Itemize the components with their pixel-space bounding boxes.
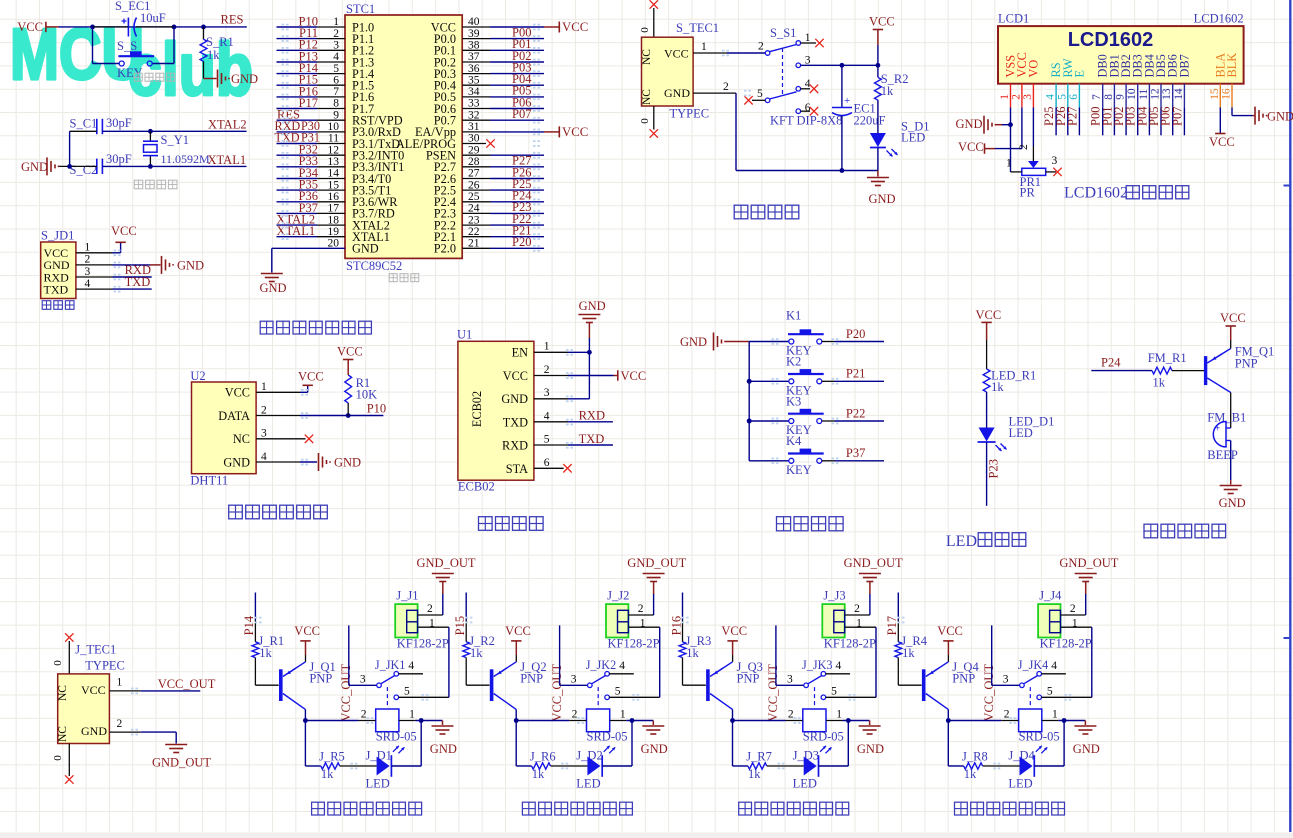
svg-text:SRD-05: SRD-05	[1019, 730, 1060, 744]
junction	[876, 63, 881, 68]
svg-text:2: 2	[854, 603, 860, 615]
label relay circuit title 4	[955, 802, 968, 815]
svg-text:P07: P07	[512, 107, 531, 121]
svg-text:4: 4	[836, 660, 842, 672]
svg-text:6: 6	[1068, 94, 1080, 100]
wire collector	[304, 709, 306, 720]
svg-text:TXD: TXD	[44, 282, 69, 296]
svg-text:1k: 1k	[207, 48, 220, 62]
svg-text:4: 4	[1051, 660, 1057, 672]
wire jj pin1 rail	[845, 626, 876, 628]
junction	[747, 419, 752, 424]
svg-text:4: 4	[408, 660, 414, 672]
wire led branch left	[947, 721, 949, 767]
pin4 wire to GND	[256, 461, 300, 463]
svg-text:GND: GND	[1219, 496, 1246, 510]
wire XTAL1 net	[59, 165, 97, 167]
wire net P22	[822, 420, 835, 422]
wire jj pin2 to gnd_out	[1061, 614, 1086, 616]
svg-text:GND: GND	[231, 72, 258, 86]
svg-text:LED: LED	[793, 776, 817, 790]
svg-text:VCC: VCC	[1209, 135, 1235, 149]
wire led branch right	[391, 765, 421, 767]
label bluetooth title	[479, 517, 493, 531]
svg-text:VCC_OUT: VCC_OUT	[339, 664, 353, 722]
svg-text:VO: VO	[1026, 60, 1040, 78]
wire led branch right	[602, 765, 632, 767]
svg-text:GND: GND	[956, 117, 983, 131]
wire coil pin2	[733, 720, 786, 722]
svg-text:1: 1	[805, 32, 811, 44]
svg-text:3: 3	[360, 674, 366, 686]
svg-text:1k: 1k	[991, 380, 1004, 394]
svg-text:K1: K1	[786, 309, 801, 323]
svg-text:LCD1: LCD1	[998, 12, 1029, 26]
junction	[514, 718, 519, 723]
svg-text:12: 12	[1150, 88, 1162, 100]
label crystal caption	[134, 180, 143, 189]
svg-text:GND: GND	[869, 192, 896, 206]
svg-text:VCC: VCC	[958, 140, 984, 154]
pin 20 GND wire	[272, 247, 345, 249]
svg-text:0: 0	[52, 755, 64, 761]
junction	[148, 129, 153, 134]
no-connect X (jtec top)	[65, 633, 73, 641]
svg-text:5: 5	[404, 686, 410, 698]
junction	[201, 25, 206, 30]
svg-text:J_J1: J_J1	[396, 589, 418, 603]
junction	[1062, 718, 1067, 723]
svg-text:VCC: VCC	[721, 624, 747, 638]
wire keys gnd rail	[748, 342, 750, 461]
svg-text:P22: P22	[846, 406, 865, 420]
svg-text:VCC: VCC	[298, 370, 324, 384]
svg-text:10uF: 10uF	[140, 11, 166, 25]
wire coil pin1	[610, 720, 627, 722]
svg-text:2: 2	[544, 364, 550, 376]
svg-text:P20: P20	[846, 327, 865, 341]
svg-text:2: 2	[117, 718, 123, 730]
svg-text:DHT11: DHT11	[190, 474, 228, 488]
wire GND return	[693, 92, 736, 94]
svg-text:STC89C52: STC89C52	[346, 259, 402, 273]
svg-text:1: 1	[1006, 158, 1012, 170]
svg-text:S_Y1: S_Y1	[161, 133, 189, 147]
svg-text:1: 1	[836, 709, 842, 721]
svg-text:J_JK2: J_JK2	[586, 658, 616, 672]
svg-text:1k: 1k	[470, 646, 483, 660]
svg-text:11: 11	[1138, 89, 1150, 100]
svg-text:STC1: STC1	[346, 2, 375, 16]
svg-text:VCC: VCC	[664, 46, 689, 60]
svg-text:J_R6: J_R6	[530, 749, 556, 763]
svg-text:0: 0	[52, 660, 64, 666]
svg-text:2: 2	[1010, 94, 1022, 100]
svg-text:GND: GND	[177, 259, 204, 273]
svg-text:14: 14	[1173, 88, 1185, 100]
ground (dht11)	[318, 453, 320, 471]
svg-text:LED: LED	[366, 776, 390, 790]
svg-text:J_J2: J_J2	[607, 589, 629, 603]
svg-text:GND_OUT: GND_OUT	[627, 556, 686, 570]
wire net P37	[822, 460, 835, 462]
svg-text:XTAL2: XTAL2	[208, 118, 247, 132]
svg-text:DATA: DATA	[218, 409, 250, 423]
svg-text:GND: GND	[1267, 110, 1293, 124]
junction	[303, 718, 308, 723]
svg-text:KEY: KEY	[786, 463, 812, 477]
compile marks (relay)	[632, 694, 635, 696]
wire coil pin2	[948, 720, 1001, 722]
svg-text:4: 4	[544, 410, 550, 422]
svg-text:LCD1602: LCD1602	[1194, 12, 1244, 26]
svg-text:VCC: VCC	[562, 125, 588, 139]
pin1 wire to VCC	[256, 391, 300, 393]
svg-text:VCC: VCC	[869, 15, 895, 29]
svg-text:4: 4	[1045, 94, 1057, 100]
label reset caption	[134, 73, 142, 81]
svg-text:4: 4	[261, 451, 267, 463]
wire XTAL2 net	[70, 130, 97, 132]
svg-text:1k: 1k	[902, 646, 915, 660]
svg-text:30pF: 30pF	[106, 152, 132, 166]
compile marks (power)	[722, 50, 725, 52]
svg-text:SRD-05: SRD-05	[587, 730, 628, 744]
svg-text:GND: GND	[680, 335, 707, 349]
svg-text:6: 6	[805, 102, 811, 114]
svg-text:S_S: S_S	[117, 39, 137, 53]
svg-text:J_TEC1: J_TEC1	[75, 643, 116, 657]
ground (relay 4)	[1084, 721, 1086, 726]
wire RES net	[59, 26, 247, 28]
label buzzer title	[1144, 524, 1158, 538]
svg-text:PNP: PNP	[952, 672, 975, 686]
compile marks (relay)	[849, 694, 852, 696]
svg-text:GND: GND	[430, 742, 457, 756]
svg-text:J_R5: J_R5	[319, 749, 345, 763]
label keys title	[777, 517, 791, 531]
wire VO to wiper	[1032, 107, 1034, 146]
svg-text:2: 2	[723, 81, 729, 93]
svg-text:FM_B1: FM_B1	[1207, 411, 1246, 425]
svg-text:P17: P17	[299, 96, 318, 110]
wire led branch right	[819, 765, 849, 767]
ground (relay 1)	[442, 721, 444, 726]
svg-text:XTAL1: XTAL1	[208, 153, 247, 167]
svg-text:6: 6	[544, 457, 550, 469]
pin3 no-connect	[256, 438, 305, 440]
wire collector	[947, 709, 949, 720]
svg-text:DB7: DB7	[1177, 54, 1191, 77]
ground (relay 2)	[652, 721, 654, 726]
svg-text:PNP: PNP	[520, 672, 543, 686]
svg-text:P2.0: P2.0	[434, 242, 456, 256]
svg-text:2: 2	[427, 603, 433, 615]
svg-text:VCC: VCC	[1220, 311, 1246, 325]
svg-text:KF128-2P: KF128-2P	[1040, 636, 1092, 650]
svg-text:RXD: RXD	[579, 409, 605, 423]
svg-text:1k: 1k	[881, 84, 894, 98]
pin3 GND wire	[534, 398, 568, 400]
power port VCC (mcu)	[544, 131, 559, 133]
pin 1 wire to VCC	[76, 252, 113, 254]
svg-text:E: E	[1072, 70, 1086, 78]
svg-text:S_R1: S_R1	[206, 35, 234, 49]
junction	[747, 379, 752, 384]
label minimum system title	[260, 321, 273, 334]
svg-text:P31: P31	[301, 131, 320, 145]
svg-text:3: 3	[261, 428, 267, 440]
no-connect X (jtec bottom)	[65, 775, 73, 783]
svg-text:GND_OUT: GND_OUT	[844, 556, 903, 570]
junction	[172, 25, 177, 30]
wire coil pin1	[1042, 720, 1059, 722]
svg-text:LCD1602: LCD1602	[1068, 29, 1154, 51]
svg-text:2: 2	[1070, 603, 1076, 615]
svg-text:LCD1602: LCD1602	[1064, 185, 1128, 202]
wire BLA to VCC	[1219, 107, 1221, 133]
svg-text:1k: 1k	[1153, 376, 1166, 390]
wire jj pin2 to gnd_out	[845, 614, 870, 616]
svg-text:SRD-05: SRD-05	[376, 730, 417, 744]
ground (download port)	[150, 264, 161, 266]
svg-text:TYPEC: TYPEC	[670, 107, 710, 121]
svg-text:J_J4: J_J4	[1039, 589, 1062, 603]
svg-text:S_C1: S_C1	[70, 117, 98, 131]
junction	[730, 718, 735, 723]
label relay circuit title 3	[739, 802, 752, 815]
svg-text:RES: RES	[221, 13, 244, 27]
ground (buzzer)	[1230, 480, 1232, 484]
svg-text:P23: P23	[987, 459, 1001, 478]
svg-text:KF128-2P: KF128-2P	[397, 636, 449, 650]
svg-text:GND_OUT: GND_OUT	[417, 556, 476, 570]
wire jj pin1 rail	[628, 626, 659, 628]
svg-text:P14: P14	[242, 615, 256, 635]
svg-text:1: 1	[999, 94, 1011, 100]
label relay circuit title 2	[522, 802, 535, 815]
wire led branch right	[1034, 765, 1064, 767]
junction	[587, 350, 592, 355]
svg-text:GND: GND	[81, 724, 107, 738]
svg-text:ECB02: ECB02	[470, 391, 484, 427]
svg-text:VCC_OUT: VCC_OUT	[982, 664, 996, 722]
svg-text:3: 3	[85, 266, 91, 278]
svg-text:P37: P37	[846, 446, 865, 460]
svg-text:BLK: BLK	[1225, 53, 1239, 78]
wire jj pin2 to gnd_out	[628, 614, 653, 616]
svg-text:GND_OUT: GND_OUT	[152, 756, 211, 770]
svg-text:VCC: VCC	[562, 20, 588, 34]
svg-text:2: 2	[1004, 709, 1010, 721]
label download port caption	[42, 301, 51, 310]
wire net P23	[986, 442, 988, 506]
svg-text:220uF: 220uF	[854, 114, 886, 128]
svg-text:LED: LED	[1008, 776, 1032, 790]
svg-text:LED: LED	[901, 131, 925, 145]
svg-text:U1: U1	[457, 328, 472, 342]
svg-text:VCC_OUT: VCC_OUT	[766, 664, 780, 722]
svg-text:2: 2	[261, 404, 267, 416]
label mcu caption	[389, 274, 397, 282]
MCUclub logo	[10, 15, 253, 111]
wire led branch left	[304, 721, 306, 767]
pin1 no-connect	[801, 42, 817, 44]
svg-text:+: +	[844, 95, 850, 107]
svg-text:1: 1	[1052, 709, 1058, 721]
svg-text:KFT DIP-8X8: KFT DIP-8X8	[770, 114, 842, 128]
svg-text:5: 5	[1056, 94, 1068, 100]
svg-text:P17: P17	[885, 616, 899, 635]
svg-text:S_TEC1: S_TEC1	[676, 21, 719, 35]
svg-text:2: 2	[361, 709, 367, 721]
svg-text:P07: P07	[1170, 107, 1184, 126]
no-connect X (typec bottom)	[650, 129, 658, 137]
wire coil pin2	[516, 720, 569, 722]
svg-text:LED: LED	[946, 533, 977, 550]
svg-text:VCC: VCC	[225, 386, 250, 400]
wire jj pin1 rail	[418, 626, 449, 628]
wire collector to buzzer	[1230, 393, 1232, 429]
wire coil pin1	[399, 720, 416, 722]
svg-text:NC: NC	[57, 726, 69, 742]
lcd data wires	[1055, 107, 1057, 135]
junction	[946, 718, 951, 723]
svg-text:P20: P20	[512, 235, 531, 249]
svg-text:VCC: VCC	[294, 624, 320, 638]
svg-text:J_R7: J_R7	[746, 749, 772, 763]
svg-text:TXD: TXD	[275, 131, 300, 145]
svg-text:1: 1	[261, 381, 267, 393]
junction	[630, 718, 635, 723]
svg-text:GND: GND	[641, 742, 668, 756]
svg-text:ECB02: ECB02	[458, 480, 495, 494]
svg-text:J_JK1: J_JK1	[375, 658, 405, 672]
svg-text:P16: P16	[669, 616, 683, 635]
pin2 VCC wire	[534, 375, 568, 377]
junction	[747, 419, 752, 424]
svg-text:GND: GND	[857, 742, 884, 756]
junction	[840, 168, 845, 173]
svg-text:5: 5	[757, 88, 763, 100]
svg-text:PR: PR	[1020, 186, 1036, 200]
wire jj pin2 to gnd_out	[418, 614, 443, 616]
wire collector	[515, 709, 517, 720]
svg-text:TXD: TXD	[503, 415, 528, 429]
wire switch pin3 to VCC rail	[801, 64, 878, 66]
svg-text:BEEP: BEEP	[1207, 448, 1238, 462]
svg-text:4: 4	[619, 660, 625, 672]
ground (lcd backlight)	[1253, 115, 1255, 117]
wire coil pin1	[826, 720, 843, 722]
compile marks (mcu)	[282, 24, 285, 26]
svg-text:NC: NC	[57, 685, 69, 701]
svg-text:5: 5	[1047, 686, 1053, 698]
svg-text:5: 5	[544, 434, 550, 446]
svg-text:3: 3	[1052, 155, 1058, 167]
svg-text:1: 1	[620, 709, 626, 721]
sheet border	[1289, 0, 1291, 832]
svg-text:GND: GND	[223, 455, 250, 469]
potentiometer PR1	[1028, 161, 1039, 168]
svg-text:16: 16	[1221, 88, 1233, 100]
svg-text:5: 5	[615, 686, 621, 698]
svg-text:P27: P27	[1065, 107, 1079, 126]
svg-text:J_JK4: J_JK4	[1018, 658, 1048, 672]
wire VSS to gnd	[1010, 107, 1012, 171]
wire net P21	[822, 380, 835, 382]
pin6 STA no-connect	[534, 467, 564, 469]
no-connect X (typec top)	[650, 0, 658, 8]
svg-text:J_JK3: J_JK3	[802, 658, 832, 672]
svg-text:2: 2	[572, 709, 578, 721]
wire BLK to gnd	[1231, 107, 1233, 115]
power port VCC (lcd backlight)	[1215, 133, 1225, 135]
svg-text:11.0592M: 11.0592M	[161, 152, 211, 166]
label relay circuit title 1	[312, 802, 325, 815]
wire VCC to pin2	[995, 148, 1022, 150]
junction	[90, 25, 95, 30]
svg-text:K2: K2	[786, 355, 801, 369]
wire jj pin1 rail	[1061, 626, 1092, 628]
svg-text:PNP: PNP	[1235, 357, 1258, 371]
svg-text:S_S1: S_S1	[770, 26, 796, 40]
compile marks (relay)	[421, 694, 424, 696]
svg-text:13: 13	[1161, 88, 1173, 100]
wire coil pin2	[305, 720, 358, 722]
svg-text:VCC_OUT: VCC_OUT	[158, 677, 216, 691]
junction	[148, 164, 153, 169]
svg-text:P15: P15	[453, 616, 467, 635]
svg-text:VCC: VCC	[503, 369, 528, 383]
svg-text:0: 0	[639, 27, 651, 33]
svg-text:P21: P21	[846, 367, 865, 381]
no-connect X (pot)	[1053, 168, 1061, 176]
power port VCC (download)	[115, 241, 125, 243]
pin6 no-connect	[801, 110, 811, 112]
label dht11 title	[229, 505, 243, 519]
svg-text:K3: K3	[786, 394, 801, 408]
svg-text:9: 9	[1115, 94, 1127, 100]
svg-text:EN: EN	[512, 346, 529, 360]
compile marks (relay)	[1064, 694, 1067, 696]
svg-text:XTAL1: XTAL1	[277, 224, 316, 238]
junction	[67, 164, 72, 169]
svg-text:GND: GND	[334, 456, 361, 470]
svg-text:K4: K4	[786, 434, 802, 448]
junction	[419, 718, 424, 723]
svg-text:3: 3	[787, 674, 793, 686]
svg-text:VCC: VCC	[17, 20, 43, 34]
svg-text:VCC: VCC	[976, 308, 1002, 322]
svg-text:J_R8: J_R8	[962, 749, 988, 763]
svg-text:10: 10	[1126, 88, 1138, 100]
svg-text:3: 3	[544, 387, 550, 399]
svg-text:2: 2	[788, 709, 794, 721]
svg-text:1k: 1k	[686, 646, 699, 660]
svg-text:GND: GND	[21, 160, 48, 174]
svg-text:30pF: 30pF	[106, 116, 132, 130]
svg-text:8: 8	[1103, 94, 1115, 100]
junction	[846, 718, 851, 723]
svg-text:NC: NC	[641, 49, 653, 65]
svg-text:VCC: VCC	[505, 624, 531, 638]
power port VCC (dht11)	[303, 384, 313, 386]
svg-text:PNP: PNP	[737, 672, 760, 686]
svg-text:3: 3	[571, 674, 577, 686]
junction	[1008, 122, 1013, 127]
svg-text:S_C2: S_C2	[70, 163, 98, 177]
